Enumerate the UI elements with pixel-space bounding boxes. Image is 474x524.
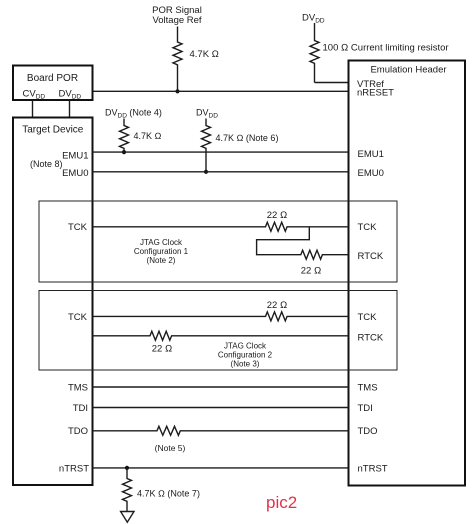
svg-text:Voltage Ref: Voltage Ref [152,15,201,26]
JTAG Clock Configuration 2 box [39,291,397,371]
svg-text:JTAG Clock: JTAG Clock [224,342,267,351]
svg-text:22 Ω: 22 Ω [301,266,322,277]
svg-text:4.7K Ω: 4.7K Ω [190,49,219,60]
node nTRST pull-down junction [125,466,129,470]
svg-text:pic2: pic2 [266,493,297,512]
resistor 4.7K (Note 6) pull-up [202,119,211,172]
wire TCK config2 with resistor 22 Ω [93,312,349,321]
label JTAG Clock Configuration 2 (Note 3) [218,342,273,369]
svg-text:EMU1: EMU1 [62,151,88,162]
node EMU0 pull-up junction [204,170,208,174]
Emulation Header box [349,61,466,486]
wire RTCK loopback (config1) [257,227,349,259]
svg-text:(Note 5): (Note 5) [155,443,186,453]
wire RTCK config2 with resistor 22 Ω [93,331,349,340]
svg-text:4.7K Ω: 4.7K Ω [134,131,162,141]
svg-text:nTRST: nTRST [59,463,89,474]
svg-text:TDO: TDO [68,426,88,437]
ground [121,512,134,523]
wire Board POR output to nRESET [93,90,349,92]
wire CVDD to Target Device [32,100,34,118]
svg-text:TCK: TCK [358,222,378,233]
svg-text:(Note 2): (Note 2) [147,256,176,265]
resistor 4.7K (Note 7) pull-down [123,468,132,512]
svg-text:(Note 3): (Note 3) [231,359,260,368]
node POR junction [175,89,179,93]
svg-text:Target Device: Target Device [22,125,84,136]
wire nTRST [93,467,349,469]
svg-text:(Note 8): (Note 8) [30,159,63,169]
wire VTRef stub [315,82,349,84]
svg-text:TCK: TCK [358,312,378,323]
label JTAG Clock Configuration 1 (Note 2) [134,238,189,265]
svg-text:100 Ω Current limiting resisto: 100 Ω Current limiting resistor [323,43,449,54]
svg-text:TDI: TDI [358,403,373,414]
svg-text:TDI: TDI [73,403,88,414]
wire TMS [93,386,349,388]
svg-text:Emulation Header: Emulation Header [370,65,446,76]
svg-text:EMU0: EMU0 [62,168,88,179]
svg-text:RTCK: RTCK [358,332,384,343]
Target Device box [13,118,93,486]
resistor 100 Ω current limiting [310,23,319,83]
svg-text:RTCK: RTCK [358,251,384,262]
wire TCK config1 with resistor 22 Ω [93,222,349,231]
svg-text:Configuration 1: Configuration 1 [134,247,189,256]
svg-text:4.7K Ω (Note 7): 4.7K Ω (Note 7) [137,488,200,498]
svg-text:nTRST: nTRST [358,463,388,474]
Board POR box [13,66,93,101]
svg-text:TCK: TCK [68,222,88,233]
svg-text:4.7K Ω (Note 6): 4.7K Ω (Note 6) [216,133,279,143]
JTAG Clock Configuration 1 box [39,201,397,282]
node EMU1 pull-up junction [122,150,126,154]
svg-text:nRESET: nRESET [357,88,394,99]
svg-text:EMU1: EMU1 [358,149,384,160]
svg-text:22 Ω: 22 Ω [267,300,288,311]
svg-text:TMS: TMS [358,382,378,393]
resistor 4.7K (Note 4) pull-up [120,119,129,153]
svg-text:EMU0: EMU0 [358,168,384,179]
wire EMU0 [93,171,349,173]
wire DVDD to Target Device [69,100,71,118]
svg-text:TDO: TDO [358,426,378,437]
svg-text:TMS: TMS [68,382,88,393]
svg-text:Board POR: Board POR [27,73,78,84]
resistor R 4.7K (POR pull-up) [173,27,182,92]
svg-text:22 Ω: 22 Ω [267,210,288,221]
wire TDI [93,407,349,409]
wire EMU1 [93,151,349,153]
label POR Signal Voltage Ref [152,5,202,26]
svg-text:JTAG Clock: JTAG Clock [140,238,183,247]
svg-text:TCK: TCK [68,312,88,323]
svg-text:Configuration 2: Configuration 2 [218,351,273,360]
wire TDO with series resistor [93,426,349,435]
svg-text:22 Ω: 22 Ω [152,344,173,355]
